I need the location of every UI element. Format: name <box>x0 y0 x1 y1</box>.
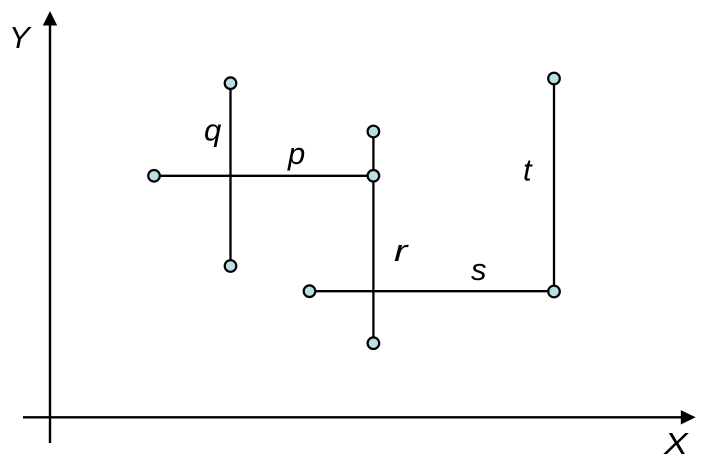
endpoint p left <box>148 170 160 182</box>
endpoint q bottom <box>225 260 237 272</box>
svg-text:r: r <box>394 233 410 268</box>
endpoint q top <box>225 77 237 89</box>
svg-text:X: X <box>663 426 689 461</box>
svg-text:Y: Y <box>9 20 32 55</box>
endpoint p right <box>368 170 380 182</box>
endpoint t top <box>548 73 560 85</box>
segment p wire <box>154 175 373 177</box>
segment r wire <box>372 132 374 344</box>
svg-text:p: p <box>287 136 305 171</box>
segment t wire <box>553 79 555 292</box>
svg-text:s: s <box>471 252 487 287</box>
X axis arrowhead <box>681 410 696 424</box>
svg-text:t: t <box>523 153 533 188</box>
endpoint s/t shared <box>548 286 560 298</box>
Y axis <box>49 25 51 444</box>
endpoint r bottom <box>368 337 380 349</box>
X axis <box>23 416 682 418</box>
segment q wire <box>229 83 231 266</box>
endpoint s left <box>304 285 316 297</box>
segment s wire <box>310 290 555 292</box>
endpoint r top <box>368 126 380 138</box>
Y axis arrowhead <box>43 11 57 26</box>
svg-text:q: q <box>204 113 222 148</box>
